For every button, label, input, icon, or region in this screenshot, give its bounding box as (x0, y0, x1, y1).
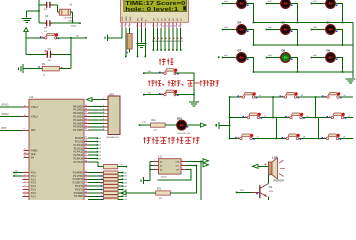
svg-text:32: 32 (85, 129, 87, 131)
wire LCD D6 (176, 28, 178, 50)
wire (88, 109, 105, 111)
svg-text:P2.3/A11: P2.3/A11 (74, 147, 84, 150)
pin SCL (181, 165, 186, 167)
resistor R7 (88, 185, 104, 187)
svg-text:P0.3/AD3: P0.3/AD3 (73, 116, 84, 119)
svg-text:VEE: VEE (130, 16, 132, 21)
LCD screen (124, 0, 187, 12)
ground (buttons) (189, 102, 199, 106)
resistor R11 (88, 199, 104, 201)
wire (LED ground bus) (352, 23, 354, 79)
power arrow (speaker) (253, 164, 259, 168)
svg-text:P0.6/AD6: P0.6/AD6 (73, 126, 84, 129)
node spk (236, 192, 238, 194)
wire (335, 4, 342, 23)
svg-text:bz: bz (121, 164, 123, 166)
pin P1.7 (23, 196, 30, 198)
svg-text:P2.1/A9: P2.1/A9 (75, 141, 84, 144)
svg-text:k3: k3 (99, 148, 101, 150)
wire (71, 11, 73, 13)
wire (175, 73, 194, 101)
wire WP loop (158, 170, 192, 180)
svg-text:P3.2/INT0: P3.2/INT0 (73, 179, 84, 181)
wire (246, 30, 253, 46)
svg-text:P1.6: P1.6 (31, 193, 36, 195)
wire (25, 38, 27, 55)
svg-text:P1.0: P1.0 (31, 172, 36, 174)
svg-text:17: 17 (85, 195, 87, 197)
pin A0 (150, 161, 159, 163)
push button S9 (333, 116, 343, 118)
svg-text:P3.0/RXD: P3.0/RXD (73, 172, 84, 174)
svg-text:10k: 10k (159, 198, 162, 200)
wire (144, 72, 165, 74)
wire (246, 4, 253, 23)
wire (70, 38, 72, 69)
ground (reset) (19, 64, 23, 73)
wire (118, 166, 127, 168)
svg-text:P0.5/AD5: P0.5/AD5 (73, 122, 84, 125)
wire (88, 158, 98, 160)
svg-text:2: 2 (154, 164, 155, 166)
wire (118, 182, 123, 184)
svg-text:4: 4 (103, 112, 104, 114)
svg-text:11: 11 (85, 174, 87, 176)
wire (38, 0, 40, 23)
pin Q1 base (253, 191, 260, 193)
svg-text:XTAL1: XTAL1 (31, 106, 39, 109)
svg-text:37: 37 (85, 112, 87, 114)
svg-text:P0.7/AD7: P0.7/AD7 (73, 129, 84, 132)
svg-text:D9: D9 (327, 48, 331, 52)
wire (row 1 return) (254, 22, 354, 24)
resistor R9 (88, 192, 104, 194)
wire SDA (186, 161, 203, 163)
wire (144, 94, 165, 96)
wire (88, 141, 98, 143)
wire (246, 58, 253, 73)
push button S11 (288, 137, 298, 139)
svg-text:P3.6/WR: P3.6/WR (74, 193, 84, 195)
svg-text:7: 7 (182, 168, 183, 170)
wire (88, 129, 105, 131)
wire (126, 192, 156, 194)
svg-text:3: 3 (154, 168, 155, 170)
svg-text:P0.2/AD2: P0.2/AD2 (73, 112, 84, 115)
node (stub above keypad) (218, 56, 220, 58)
svg-text:EA: EA (31, 156, 35, 159)
node SCL arrow (203, 163, 209, 167)
svg-text:TIME:17 Score=0: TIME:17 Score=0 (125, 1, 186, 7)
svg-text:39: 39 (85, 105, 87, 107)
wire E (144, 28, 146, 57)
wire (88, 105, 105, 107)
wire (318, 118, 320, 139)
svg-text:7: 7 (103, 122, 104, 124)
pin SDA (181, 161, 186, 163)
wire (88, 147, 98, 149)
wire LCD D1 (156, 28, 158, 50)
LED D1 (222, 3, 224, 5)
wire P2.7 (88, 162, 104, 167)
svg-text:k5: k5 (99, 155, 101, 157)
power terminal (keypad) (216, 122, 219, 129)
pin P1.5 (23, 189, 30, 191)
wire (118, 172, 123, 174)
svg-text:P1.5: P1.5 (31, 190, 36, 192)
wire (keypad bus) (229, 97, 231, 139)
wire LCD D5 (172, 28, 174, 50)
svg-text:P2.6/A14: P2.6/A14 (74, 158, 84, 161)
push button S12 (328, 137, 338, 139)
svg-text:k0: k0 (99, 138, 101, 140)
svg-text:2: 2 (103, 105, 104, 107)
svg-text:24: 24 (85, 147, 87, 149)
svg-text:P0.1/AD1: P0.1/AD1 (73, 109, 84, 112)
wire (SCL to R11) (195, 166, 197, 194)
svg-text:RESPACK-8: RESPACK-8 (107, 136, 120, 139)
resistor R4 (88, 175, 104, 177)
wire (315, 97, 317, 118)
wire (88, 144, 98, 146)
wire (230, 117, 353, 119)
svg-text:led4: led4 (124, 183, 128, 185)
node SDA arrow (203, 159, 209, 163)
pin P1.1 (23, 175, 30, 177)
pin PSEN (24, 150, 30, 152)
svg-text:26: 26 (85, 154, 87, 156)
svg-text:U1: U1 (30, 95, 34, 99)
svg-text:k1: k1 (99, 141, 101, 143)
resistor R10 (88, 195, 104, 197)
push button S7 (249, 116, 259, 118)
svg-text:P3.3/INT1: P3.3/INT1 (73, 183, 84, 185)
power terminal (U2 ground) (141, 177, 144, 184)
wire LCD D2 (160, 28, 162, 50)
svg-text:D4: D4 (238, 20, 242, 24)
svg-text:led5: led5 (124, 186, 128, 188)
resistor R3 (88, 172, 104, 174)
svg-text:34: 34 (85, 122, 87, 124)
LED D3 (311, 3, 313, 5)
ground (LCD RW) (136, 44, 146, 48)
svg-text:XTAL2: XTAL2 (71, 25, 77, 28)
svg-text:led9: led9 (124, 200, 128, 201)
svg-text:24C02: 24C02 (161, 176, 168, 178)
svg-text:XTAL1: XTAL1 (68, 20, 74, 23)
resistor R6 (88, 182, 104, 184)
svg-text:P2.4/A12: P2.4/A12 (74, 151, 84, 154)
svg-text:36: 36 (85, 115, 87, 117)
svg-text:25: 25 (85, 150, 87, 152)
svg-text:5: 5 (103, 115, 104, 117)
pin P1.6 (23, 192, 30, 194)
svg-text:XTAL2: XTAL2 (31, 116, 39, 119)
resistor RV1 (contrast) (129, 28, 131, 34)
svg-text:PSEN: PSEN (31, 150, 38, 152)
svg-text:6: 6 (103, 119, 104, 121)
svg-text:P3.7/RD: P3.7/RD (74, 196, 83, 198)
node P27 (139, 124, 141, 126)
svg-text:VDD: VDD (126, 16, 128, 21)
svg-text:21: 21 (85, 137, 87, 139)
svg-text:RST: RST (31, 130, 36, 132)
pin WP (181, 169, 186, 171)
wire LCD D0 (152, 28, 154, 50)
svg-text:XTAL1: XTAL1 (2, 104, 10, 107)
wire RS (137, 28, 139, 57)
svg-text:P1.7: P1.7 (31, 196, 36, 198)
wire (170, 192, 196, 194)
svg-text:SPEAKER: SPEAKER (273, 180, 284, 183)
svg-text:33: 33 (85, 125, 87, 127)
wire (88, 116, 105, 118)
LCD module LCD1 (121, 0, 189, 22)
svg-text:P3.1/TXD: P3.1/TXD (73, 176, 83, 178)
pin EA (24, 157, 30, 159)
pin P1.0 (23, 172, 30, 174)
node P31 (143, 94, 145, 96)
svg-text:28: 28 (85, 161, 87, 163)
svg-text:P1.1: P1.1 (31, 176, 36, 178)
svg-text:6: 6 (182, 164, 183, 166)
wire (88, 137, 98, 139)
wire (144, 180, 151, 182)
svg-text:27: 27 (85, 157, 87, 159)
pin P1.2 (23, 178, 30, 180)
svg-text:LED-YELLOW: LED-YELLOW (177, 133, 190, 135)
svg-text:U2: U2 (159, 154, 163, 158)
wire (26, 37, 46, 39)
push button S4 (244, 96, 254, 98)
wire (272, 97, 274, 118)
svg-text:13: 13 (85, 181, 87, 183)
svg-text:SDA: SDA (175, 160, 180, 163)
wire (118, 199, 123, 201)
svg-text:9: 9 (103, 129, 104, 131)
wire (276, 118, 278, 139)
capacitor C1 (39, 4, 45, 6)
svg-text:led1: led1 (124, 172, 128, 174)
push button S2 (switch) (164, 72, 166, 74)
svg-text:P1.3: P1.3 (31, 183, 36, 185)
svg-text:R12: R12 (152, 120, 157, 122)
pin RP1 common (105, 99, 109, 101)
push button S3 (confirm) (164, 93, 166, 95)
wire VDD (125, 28, 127, 57)
wire (88, 126, 105, 128)
svg-text:38: 38 (85, 108, 87, 110)
power terminal (LCD VSS) (105, 34, 108, 41)
wire (56, 37, 86, 39)
wire (118, 185, 123, 187)
node XTAL2 (73, 22, 81, 24)
wire (237, 191, 254, 193)
svg-text:12: 12 (85, 178, 87, 180)
svg-text:led8: led8 (124, 196, 128, 198)
wire (165, 124, 177, 126)
svg-text:RST: RST (2, 127, 7, 130)
svg-text:ALE: ALE (31, 153, 36, 156)
svg-text:P1.2: P1.2 (31, 179, 36, 181)
wire (149, 162, 151, 181)
svg-text:P2.2/A10: P2.2/A10 (74, 144, 84, 147)
svg-text:16: 16 (85, 191, 87, 193)
svg-text:P3.5/T1: P3.5/T1 (75, 189, 84, 191)
wire (268, 175, 270, 184)
wire (118, 195, 123, 197)
wire (230, 96, 353, 98)
svg-text:D7: D7 (238, 48, 242, 52)
wire (290, 4, 297, 23)
wire (290, 58, 297, 73)
wire (290, 30, 297, 46)
LED D2 (266, 3, 268, 5)
svg-text:D8: D8 (282, 48, 286, 52)
wire (118, 189, 123, 191)
svg-text:15: 15 (85, 188, 87, 190)
svg-text:P0.4/AD4: P0.4/AD4 (73, 119, 84, 122)
pin P1.3 (23, 182, 30, 184)
wire (row 2 return) (254, 44, 354, 46)
svg-text:10: 10 (85, 171, 87, 173)
svg-text:led3: led3 (124, 179, 128, 181)
wire (258, 165, 268, 167)
pin A1 (150, 165, 159, 167)
svg-text:P2.0/A8: P2.0/A8 (75, 137, 84, 140)
pin ALE (24, 153, 30, 155)
push button S6 (328, 96, 338, 98)
svg-text:k4: k4 (99, 152, 101, 154)
wire (118, 175, 123, 177)
wire (SDA column) (200, 162, 202, 201)
label 确认、返回、下一关开始 (148, 80, 155, 86)
wire (row 3 return) (254, 71, 354, 73)
wire (121, 28, 123, 38)
wire LCD D7 (180, 28, 182, 50)
svg-text:35: 35 (85, 119, 87, 121)
ground (crystal block) (26, 11, 28, 18)
label 切换 (159, 58, 166, 64)
wire (88, 112, 105, 114)
resistor R8 (88, 189, 104, 191)
svg-text:P2.5/A13: P2.5/A13 (74, 154, 84, 157)
svg-text:led2: led2 (124, 176, 128, 178)
wire (140, 124, 151, 126)
wire (88, 151, 98, 153)
svg-text:23: 23 (85, 144, 87, 146)
wire (118, 178, 123, 180)
svg-text:rst: rst (76, 34, 79, 37)
svg-text:Q1: Q1 (269, 185, 273, 189)
push button S5 (286, 96, 296, 98)
svg-text:9014: 9014 (269, 191, 273, 193)
svg-text:1: 1 (154, 160, 155, 162)
pin A2 (150, 169, 159, 171)
wire (268, 198, 270, 201)
push button S10 (241, 137, 251, 139)
wire LCD D4 (168, 28, 170, 50)
pin P1.4 (23, 185, 30, 187)
wire (230, 138, 353, 140)
power arrow (R11) (121, 191, 127, 195)
wire (118, 192, 123, 194)
svg-text:XTAL2: XTAL2 (2, 113, 10, 116)
wire (219, 124, 230, 126)
wire (27, 10, 39, 12)
svg-text:k6: k6 (99, 158, 101, 160)
svg-text:CRYSTAL: CRYSTAL (64, 16, 73, 19)
svg-text:k2: k2 (99, 145, 101, 147)
power arrow (D10) (201, 123, 207, 127)
wire (335, 58, 342, 73)
resistor R2 (104, 164, 118, 168)
label 打到地鼠提示灯 (143, 137, 150, 144)
ground (LED matrix) (346, 79, 356, 83)
wire LCD D3 (164, 28, 166, 50)
power arrow (RP1) (87, 98, 93, 102)
svg-text:P0.0/AD0: P0.0/AD0 (73, 105, 84, 108)
svg-text:RS: RS (138, 17, 140, 21)
svg-text:5: 5 (182, 160, 183, 162)
wire SCL (186, 165, 196, 167)
wire (175, 94, 194, 96)
wire (335, 30, 342, 46)
svg-text:8: 8 (103, 125, 104, 127)
wire (88, 122, 105, 124)
svg-text:hole: 0 level:1: hole: 0 level:1 (125, 7, 179, 13)
node P30 (143, 72, 145, 74)
svg-text:VSS: VSS (122, 16, 124, 21)
wire (88, 119, 105, 121)
push button S8 (291, 116, 301, 118)
wire (88, 154, 98, 156)
svg-text:14: 14 (85, 185, 87, 187)
wire (14, 175, 23, 177)
svg-text:P2.7/A15: P2.7/A15 (74, 161, 84, 164)
resistor R5 (88, 178, 104, 180)
power VCC arrow (24, 28, 28, 32)
svg-text:22: 22 (85, 140, 87, 142)
svg-text:P1.4: P1.4 (31, 186, 36, 188)
svg-text:3: 3 (103, 108, 104, 110)
wire (14, 172, 23, 174)
wire (186, 124, 200, 126)
wire RW (140, 28, 142, 43)
svg-text:P3.4/T0: P3.4/T0 (75, 186, 84, 188)
wire (57, 5, 59, 12)
